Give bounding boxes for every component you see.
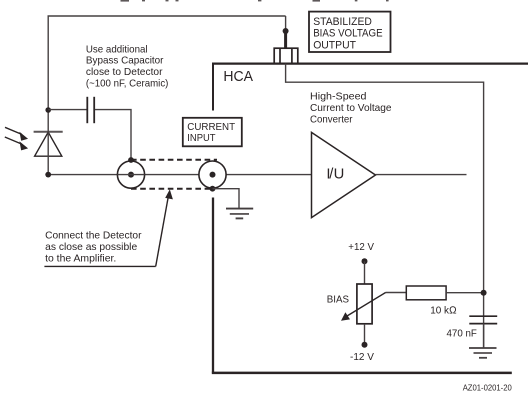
svg-text:HCA: HCA — [223, 68, 253, 85]
wire: C2 to ground — [483, 323, 485, 348]
wire: input signal line from photodiode to op-amp — [48, 174, 311, 176]
node: anode junction — [45, 172, 51, 178]
wire: op-amp output — [376, 174, 467, 176]
capacitor C1: plates — [87, 97, 94, 123]
ground (bias filter) — [469, 348, 497, 358]
photodiode D1: cathode bar — [34, 131, 63, 133]
cropped caption text fragments at top edge — [121, 0, 389, 2]
leader arrow to cable — [156, 196, 169, 266]
wire: top horizontal run to bias connector — [48, 15, 286, 17]
leader arrowhead — [165, 189, 173, 199]
wire: +12V to pot — [364, 261, 366, 284]
svg-text:CURRENT: CURRENT — [187, 122, 235, 133]
cable shield (dashed) top — [131, 159, 217, 161]
photodiode D1: body wire through symbol — [47, 110, 49, 175]
node: connector pin tip dot — [283, 28, 289, 34]
node: J1 center — [210, 172, 216, 178]
node: J1 shield bottom — [210, 186, 216, 192]
svg-text:OUTPUT: OUTPUT — [313, 39, 356, 51]
label: High-Speed Current to Voltage Converter — [310, 92, 392, 126]
cable shield (dashed) bottom — [131, 188, 213, 190]
coax connector plug P1 (cable side) — [117, 161, 144, 188]
svg-text:470 nF: 470 nF — [447, 329, 477, 340]
HCA housing left edge (lower segment) — [212, 198, 214, 373]
svg-text:Current to Voltage: Current to Voltage — [310, 103, 392, 114]
wire: J1 shield to ground — [213, 189, 240, 208]
capacitor C1: right lead down to cable shield — [95, 110, 131, 159]
svg-text:INPUT: INPUT — [187, 133, 216, 144]
coax connector J1 (panel current input) — [199, 161, 226, 188]
svg-text:-12 V: -12 V — [350, 352, 374, 363]
potentiometer wiper arrowhead — [341, 312, 350, 320]
potentiometer BIAS: -12V terminal dot — [362, 342, 368, 348]
wire: pot to -12V — [364, 324, 366, 345]
svg-text:as close as possible: as close as possible — [45, 242, 137, 253]
potentiometer BIAS: +12V terminal dot — [362, 258, 368, 264]
svg-text:Bypass Capacitor: Bypass Capacitor — [86, 56, 164, 67]
potentiometer BIAS body — [357, 284, 372, 324]
wire: photodiode cathode up to top rail corner — [47, 16, 49, 110]
op-amp U1 (I/U converter) — [312, 132, 376, 217]
wire: drop from top run to connector pin — [285, 16, 287, 29]
node: bias feed junction — [481, 290, 487, 296]
svg-text:Connect the Detector: Connect the Detector — [45, 231, 142, 242]
svg-text:(~100 nF, Ceramic): (~100 nF, Ceramic) — [86, 78, 168, 89]
photodiode D1: triangle — [35, 132, 62, 156]
leader underline — [44, 265, 155, 267]
photodiode D1: light arrows — [5, 127, 27, 149]
resistor R1 10 kOhm — [406, 286, 446, 300]
svg-text:Converter: Converter — [310, 115, 353, 126]
wire: input line through P1 re-draw — [117, 174, 144, 176]
svg-text:close to Detector: close to Detector — [86, 67, 163, 78]
connector pin (thick) — [284, 31, 287, 48]
wire: resistor to bias feed junction — [446, 292, 484, 294]
node: P1 center — [128, 172, 134, 178]
capacitor C2 470 nF — [469, 316, 497, 323]
node: P1 shield top — [128, 157, 134, 163]
svg-text:10 kΩ: 10 kΩ — [430, 305, 456, 316]
svg-text:BIAS: BIAS — [327, 294, 349, 305]
label: Use additional Bypass Capacitor close to Detector (~100 nF, Ceramic) — [86, 44, 168, 89]
svg-text:+12 V: +12 V — [348, 242, 374, 253]
svg-text:I/U: I/U — [326, 167, 344, 183]
svg-text:AZ01-0201-20: AZ01-0201-20 — [463, 384, 513, 393]
wire: wiper to resistor — [386, 292, 407, 294]
HCA housing top edge — [212, 62, 528, 64]
svg-text:High-Speed: High-Speed — [310, 92, 367, 103]
label: Connect the Detector as close as possible to the Amplifier. — [45, 231, 142, 265]
svg-text:Use additional: Use additional — [86, 44, 148, 55]
box: CURRENT INPUT — [183, 118, 242, 147]
HCA housing bottom edge — [212, 372, 512, 375]
svg-text:to the Amplifier.: to the Amplifier. — [45, 254, 116, 265]
ground (input shield) — [226, 209, 253, 219]
potentiometer wiper arrow — [346, 292, 386, 316]
box: STABILIZED BIAS VOLTAGE OUTPUT — [309, 12, 391, 52]
svg-text:STABILIZED: STABILIZED — [313, 16, 372, 28]
wire: bias feed from connector down, across and down to bias network — [286, 64, 484, 349]
node: bypass junction at cathode — [45, 107, 51, 113]
capacitor C1 (bypass): left lead — [48, 109, 86, 111]
svg-text:BIAS VOLTAGE: BIAS VOLTAGE — [313, 28, 382, 40]
HCA housing left edge (upper segment) — [212, 63, 214, 111]
bias output feed-through connector body — [274, 48, 298, 63]
